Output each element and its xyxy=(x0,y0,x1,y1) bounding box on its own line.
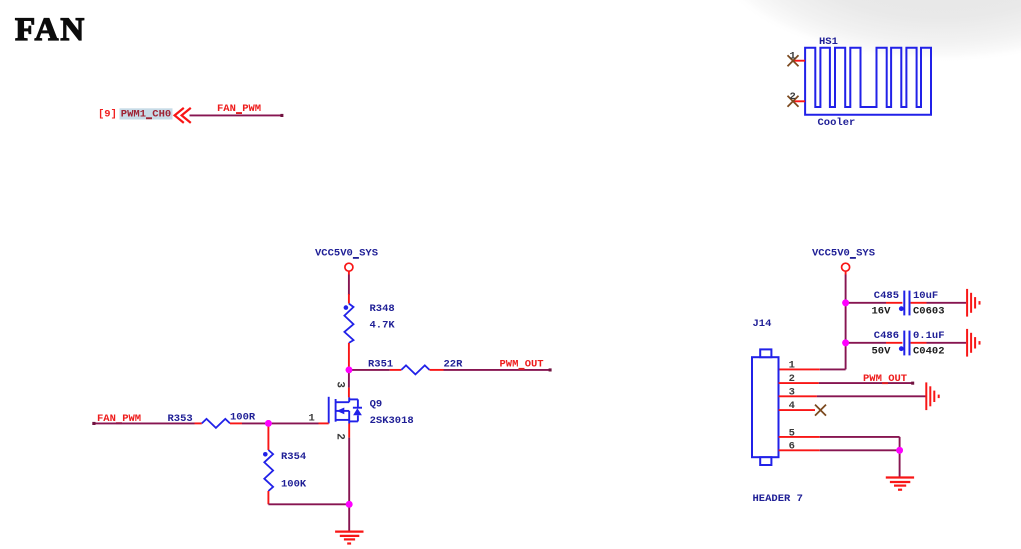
svg-text:4: 4 xyxy=(789,400,795,412)
svg-text:6: 6 xyxy=(789,441,795,453)
svg-text:4.7K: 4.7K xyxy=(370,320,396,332)
svg-text:Q9: Q9 xyxy=(370,399,383,411)
svg-text:R354: R354 xyxy=(281,451,306,463)
svg-text:J14: J14 xyxy=(753,318,772,330)
svg-text:1: 1 xyxy=(309,412,315,424)
svg-text:R351: R351 xyxy=(368,359,393,371)
svg-text:[9]: [9] xyxy=(98,108,117,120)
svg-text:2SK3018: 2SK3018 xyxy=(370,415,414,427)
svg-text:3: 3 xyxy=(333,381,345,388)
svg-text:VCC5V0 SYS: VCC5V0 SYS xyxy=(315,248,378,260)
svg-text:2: 2 xyxy=(790,91,796,103)
svg-text:10uF: 10uF xyxy=(913,290,938,302)
svg-text:R348: R348 xyxy=(370,303,395,315)
svg-text:16V: 16V xyxy=(872,306,892,318)
svg-text:50V: 50V xyxy=(872,346,892,358)
svg-text:5: 5 xyxy=(789,427,795,439)
svg-text:R353: R353 xyxy=(168,413,193,425)
svg-text:C0402: C0402 xyxy=(913,346,945,358)
svg-text:VCC5V0 SYS: VCC5V0 SYS xyxy=(812,248,875,260)
svg-text:0.1uF: 0.1uF xyxy=(913,330,945,342)
svg-text:22R: 22R xyxy=(444,359,464,371)
svg-text:2: 2 xyxy=(789,373,795,385)
svg-text:HEADER 7: HEADER 7 xyxy=(753,493,803,505)
svg-text:100R: 100R xyxy=(230,411,256,423)
svg-text:3: 3 xyxy=(789,387,795,399)
svg-text:100K: 100K xyxy=(281,478,307,490)
svg-text:C485: C485 xyxy=(874,290,899,302)
svg-text:2: 2 xyxy=(333,433,345,440)
svg-text:HS1: HS1 xyxy=(819,36,838,48)
svg-text:C486: C486 xyxy=(874,330,899,342)
svg-text:C0603: C0603 xyxy=(913,306,945,318)
svg-text:Cooler: Cooler xyxy=(818,117,856,129)
svg-text:1: 1 xyxy=(789,359,795,371)
svg-text:FAN: FAN xyxy=(15,12,86,48)
svg-text:1: 1 xyxy=(790,51,796,63)
